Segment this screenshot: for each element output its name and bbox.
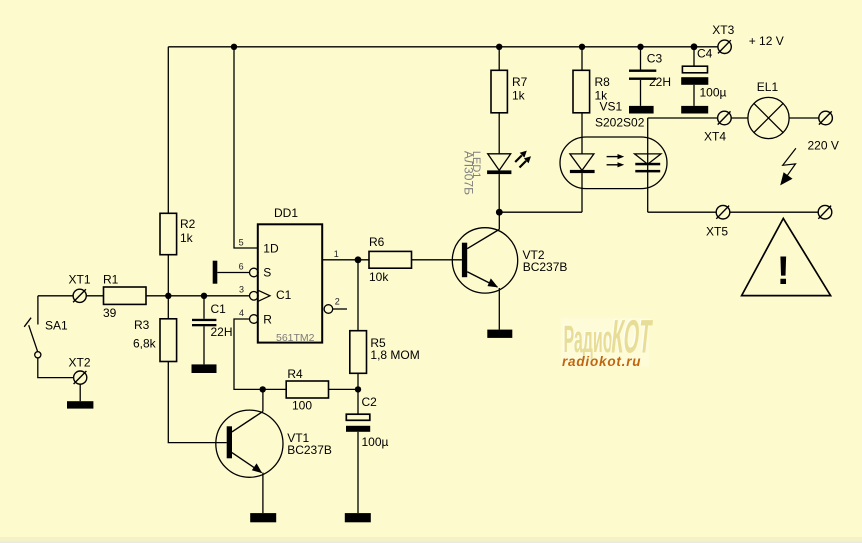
pin 3 circle: [250, 292, 259, 301]
wire R3 bottom to VT1 base: [168, 362, 226, 443]
resistor R4: [286, 381, 328, 398]
wire node to R5: [357, 260, 359, 331]
wire R1 to DD1 pin 3: [146, 295, 250, 297]
pin 4 circle: [250, 315, 259, 324]
svg-text:R4: R4: [287, 367, 303, 381]
svg-text:+ 12 V: + 12 V: [749, 34, 784, 48]
svg-text:C1: C1: [276, 288, 292, 302]
transistor VT1: [216, 410, 283, 477]
svg-text:1k: 1k: [512, 89, 526, 103]
svg-text:561ТМ2: 561ТМ2: [276, 332, 315, 344]
wire pin 1 to R6: [322, 259, 369, 261]
wire top supply rail: [168, 46, 718, 48]
wire VT2 collector to node C: [498, 212, 500, 229]
svg-text:XT5: XT5: [706, 224, 728, 238]
svg-text:S: S: [263, 265, 271, 279]
svg-text:BC237B: BC237B: [523, 260, 568, 274]
svg-text:C4: C4: [697, 47, 713, 61]
wire XT5 to right terminal: [730, 211, 818, 213]
resistor R8: [581, 47, 583, 71]
LED1 emission arrows: [515, 155, 526, 167]
svg-text:EL1: EL1: [757, 80, 779, 94]
wire pin 4 to R4 node: [234, 319, 263, 389]
svg-text:R8: R8: [595, 75, 611, 89]
watermark RadioKOT: [561, 308, 654, 368]
terminal XT4: [718, 111, 732, 125]
svg-text:radiokot.ru: radiokot.ru: [562, 354, 641, 369]
transistor VT2: [452, 228, 517, 293]
resistor R2: [160, 213, 177, 254]
wire R6 to VT2 base: [412, 259, 462, 261]
lamp EL1: [748, 97, 789, 138]
svg-text:6: 6: [239, 262, 244, 272]
ground below C4: [681, 106, 708, 114]
svg-text:4: 4: [239, 308, 244, 318]
svg-text:R7: R7: [512, 75, 528, 89]
svg-text:R: R: [263, 312, 272, 326]
wire VT2 emitter to ground: [498, 288, 500, 330]
svg-text:XT2: XT2: [69, 356, 91, 370]
svg-text:SA1: SA1: [45, 319, 68, 333]
wire R4 left: [263, 388, 287, 390]
ground below C2: [345, 513, 371, 522]
wire R5 to node B: [357, 373, 359, 389]
svg-text:100: 100: [292, 399, 312, 413]
wire R8 to opto LED: [581, 113, 583, 154]
resistor R7: [498, 47, 500, 71]
pin 2 circle and stub: [324, 305, 333, 314]
capacitor C4: [693, 47, 695, 66]
svg-text:XT3: XT3: [712, 23, 734, 37]
ground below VT2: [487, 330, 512, 338]
wire junction A to R3 top: [167, 296, 169, 319]
wire R7 to LED1: [498, 113, 500, 154]
svg-text:220 V: 220 V: [808, 139, 839, 153]
resistor R5: [350, 331, 367, 374]
svg-text:1: 1: [334, 249, 339, 259]
svg-text:22Н: 22Н: [649, 75, 671, 89]
wire R2 bottom to junction A: [167, 255, 169, 296]
terminal XT2: [74, 371, 87, 384]
wire VT1 collector: [262, 389, 264, 411]
svg-text:АЛ307Б: АЛ307Б: [462, 151, 476, 195]
svg-text:DD1: DD1: [274, 206, 298, 220]
wire XT2 to ground: [79, 384, 81, 401]
wire node C to opto LED: [499, 211, 582, 213]
ground below VT1: [250, 513, 276, 522]
switch SA1: [24, 296, 73, 378]
svg-text:3: 3: [239, 284, 244, 294]
pin 6 circle: [250, 268, 259, 277]
svg-text:C1: C1: [211, 302, 227, 316]
ground below C3: [629, 106, 654, 114]
svg-text:S202S02: S202S02: [595, 116, 645, 130]
svg-text:!: !: [777, 249, 790, 293]
svg-text:2: 2: [335, 297, 340, 307]
svg-text:R2: R2: [180, 217, 196, 231]
svg-text:22Н: 22Н: [211, 325, 233, 339]
svg-text:100µ: 100µ: [362, 435, 389, 449]
svg-text:1k: 1k: [180, 231, 194, 245]
svg-text:C3: C3: [647, 52, 663, 66]
svg-text:100µ: 100µ: [700, 86, 727, 100]
warning triangle: [742, 218, 831, 295]
terminal right bottom: [818, 205, 832, 219]
wire left vertical from rail to R2: [167, 47, 169, 214]
terminal XT1: [73, 289, 86, 302]
resistor R1: [104, 287, 147, 304]
svg-text:39: 39: [103, 306, 117, 320]
ground bar at pin S: [213, 261, 218, 284]
svg-text:R6: R6: [369, 235, 385, 249]
svg-text:VS1: VS1: [600, 100, 623, 114]
lightning arrow: [783, 148, 796, 176]
flip-flop DD1 561TM2: [258, 224, 322, 342]
wire XT1 to R1: [86, 295, 103, 297]
svg-text:XT4: XT4: [704, 129, 726, 143]
ground below C1: [192, 364, 217, 373]
VT2 emitter arrow: [488, 278, 499, 287]
LED LED1: [488, 154, 511, 171]
wire EL1 to right terminal: [789, 117, 819, 119]
wire C1 bottom to ground: [203, 326, 205, 364]
svg-text:6,8k: 6,8k: [133, 337, 157, 351]
svg-text:R3: R3: [134, 318, 150, 332]
opto triac: [647, 118, 649, 212]
capacitor C1: [192, 319, 216, 327]
VT1 emitter arrow: [252, 463, 262, 473]
wire triac top to XT4: [648, 117, 718, 119]
wire S bar to pin 6: [217, 272, 249, 274]
optocoupler VS1 S202S02 body: [560, 137, 667, 189]
svg-text:1,8 МОМ: 1,8 МОМ: [370, 348, 419, 362]
opto coupling arrows: [607, 157, 619, 165]
resistor R3: [160, 319, 177, 362]
clock triangle C1: [258, 290, 270, 301]
capacitor C3: [640, 47, 642, 70]
wire rail to DD1 pin 5: [234, 47, 258, 248]
svg-text:10k: 10k: [369, 270, 389, 284]
wire opto LED to bottom: [581, 173, 583, 212]
wire XT4 to EL1: [731, 117, 748, 119]
resistor R6: [369, 251, 412, 268]
terminal XT5: [716, 205, 730, 219]
terminal right of EL1: [819, 111, 833, 125]
terminal XT3: [718, 40, 731, 53]
svg-text:5: 5: [239, 237, 244, 247]
svg-text:BC237B: BC237B: [287, 443, 332, 457]
svg-text:R1: R1: [103, 273, 119, 287]
svg-text:XT1: XT1: [69, 273, 91, 287]
capacitor C2: [357, 389, 359, 414]
wire VT1 emitter to ground: [262, 473, 264, 513]
svg-text:C2: C2: [362, 395, 378, 409]
opto LED: [570, 154, 594, 171]
wire triac bottom to XT5: [648, 211, 717, 213]
wire R4 right: [329, 388, 359, 390]
wire node to C1 top: [203, 296, 205, 319]
svg-text:1D: 1D: [263, 241, 279, 255]
wire SA1 top to XT1: [38, 295, 73, 297]
ground below XT2: [67, 401, 93, 408]
